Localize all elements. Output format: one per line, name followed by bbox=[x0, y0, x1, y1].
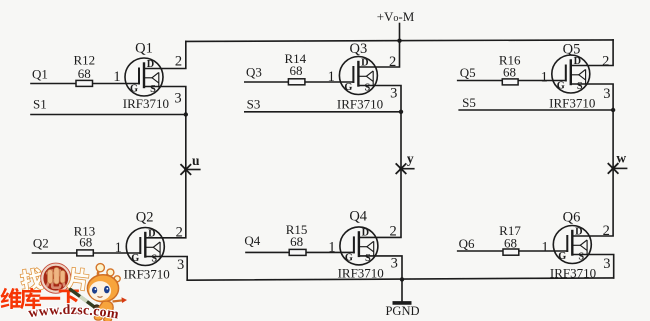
svg-text:G: G bbox=[130, 84, 138, 95]
svg-text:1: 1 bbox=[328, 239, 335, 255]
wire Q1 drain to rail bbox=[144, 41, 186, 68]
wire Q1 source down to node u bbox=[144, 87, 186, 170]
svg-text:2: 2 bbox=[603, 223, 610, 239]
svg-text:D: D bbox=[147, 59, 154, 70]
node +Vo-M lead bbox=[399, 24, 401, 41]
svg-text:68: 68 bbox=[290, 234, 303, 249]
resistor R13 bbox=[74, 224, 96, 256]
wire Q4 source to bottom rail bbox=[359, 256, 402, 280]
svg-text:Q4: Q4 bbox=[349, 208, 367, 224]
svg-text:Q6: Q6 bbox=[563, 209, 581, 225]
resistor R16 bbox=[499, 52, 521, 85]
transistor Q1 IRF3710 bbox=[125, 58, 163, 96]
svg-text:Q2: Q2 bbox=[136, 210, 154, 226]
watermark mascot bbox=[71, 264, 128, 321]
svg-text:1: 1 bbox=[113, 69, 120, 85]
svg-text:Q3: Q3 bbox=[246, 65, 262, 80]
svg-text:3: 3 bbox=[174, 90, 181, 106]
svg-text:2: 2 bbox=[389, 54, 396, 70]
svg-text:IRF3710: IRF3710 bbox=[338, 265, 384, 280]
junction dot top rail bbox=[397, 39, 401, 43]
svg-text:S: S bbox=[577, 81, 583, 92]
svg-text:S: S bbox=[150, 84, 156, 95]
watermark text 找 bbox=[20, 267, 45, 292]
transistor Q6 IRF3710 bbox=[553, 226, 591, 264]
svg-text:G: G bbox=[558, 251, 566, 262]
wire node u to Q2 drain bbox=[145, 170, 186, 238]
svg-text:u: u bbox=[192, 153, 200, 168]
svg-text:3: 3 bbox=[390, 85, 397, 101]
svg-text:2: 2 bbox=[175, 54, 182, 70]
wire node w to Q6 drain bbox=[572, 168, 613, 236]
wire input Q6 bbox=[458, 250, 568, 252]
svg-text:2: 2 bbox=[176, 225, 183, 241]
wire S1 line bbox=[31, 114, 186, 116]
svg-text:S3: S3 bbox=[247, 97, 261, 112]
svg-text:PGND: PGND bbox=[385, 304, 419, 318]
transistor Q3 IRF3710 bbox=[339, 57, 377, 95]
svg-text:y: y bbox=[407, 151, 414, 166]
svg-text:68: 68 bbox=[504, 235, 517, 250]
svg-text:68: 68 bbox=[290, 63, 303, 78]
svg-text:68: 68 bbox=[79, 235, 92, 250]
svg-text:IRF3710: IRF3710 bbox=[337, 96, 383, 111]
junction dot S1 bbox=[184, 112, 188, 116]
svg-text:68: 68 bbox=[78, 66, 91, 81]
node y bbox=[396, 151, 414, 174]
wire Q6 source to bottom rail bbox=[572, 255, 613, 278]
watermark magnifier with 芯 bbox=[41, 263, 71, 293]
svg-text:Q1: Q1 bbox=[135, 41, 153, 57]
wire node y to Q4 drain bbox=[359, 169, 401, 238]
wire S3 line bbox=[245, 111, 401, 113]
svg-text:S: S bbox=[365, 83, 371, 94]
transistor Q4 IRF3710 bbox=[340, 227, 378, 265]
watermark text 片 bbox=[67, 267, 90, 291]
svg-text:3: 3 bbox=[603, 86, 610, 102]
svg-text:Q4: Q4 bbox=[244, 233, 260, 248]
transistor Q2 IRF3710 bbox=[126, 228, 164, 266]
svg-text:1: 1 bbox=[115, 240, 122, 256]
svg-text:3: 3 bbox=[177, 257, 184, 273]
svg-text:D: D bbox=[148, 228, 155, 239]
svg-text:IRF3710: IRF3710 bbox=[123, 96, 169, 111]
resistor R17 bbox=[499, 223, 521, 255]
svg-text:IRF3710: IRF3710 bbox=[124, 266, 170, 281]
svg-text:G: G bbox=[344, 82, 352, 93]
wire Q3 drain to rail bbox=[358, 41, 399, 67]
svg-text:G: G bbox=[557, 81, 565, 92]
junction dot S3 bbox=[399, 110, 403, 114]
wire input Q1 bbox=[31, 83, 139, 85]
wire Q2 source to bottom rail bbox=[145, 257, 187, 281]
watermark text 维库一下 bbox=[0, 288, 78, 309]
node w bbox=[608, 151, 626, 174]
junction dot S5 bbox=[611, 108, 615, 112]
svg-text:Q2: Q2 bbox=[33, 236, 49, 251]
svg-text:2: 2 bbox=[602, 54, 609, 70]
svg-text:Q1: Q1 bbox=[32, 66, 48, 81]
svg-text:2: 2 bbox=[389, 223, 396, 239]
junction dot bottom rail bbox=[400, 277, 404, 281]
wire S5 line bbox=[459, 109, 613, 111]
wire input Q3 bbox=[245, 81, 354, 83]
wire Q5 drain to rail bbox=[571, 40, 613, 66]
svg-text:D: D bbox=[575, 226, 582, 237]
svg-text:Q5: Q5 bbox=[563, 41, 581, 57]
svg-text:w: w bbox=[616, 151, 626, 166]
svg-text:S: S bbox=[151, 254, 157, 265]
svg-text:S: S bbox=[578, 252, 584, 263]
svg-text:Q3: Q3 bbox=[350, 41, 368, 57]
svg-text:Q5: Q5 bbox=[460, 65, 476, 80]
svg-text:1: 1 bbox=[541, 69, 548, 85]
wire bottom rail PGND bbox=[187, 278, 614, 280]
wire Q5 source down to node w bbox=[571, 84, 613, 168]
transistor Q5 IRF3710 bbox=[552, 55, 590, 93]
svg-text:IRF3710: IRF3710 bbox=[549, 95, 595, 110]
wire top rail +Vo-M bbox=[186, 40, 613, 42]
svg-text:D: D bbox=[574, 56, 581, 67]
node u bbox=[181, 153, 200, 174]
wire input Q5 bbox=[458, 80, 566, 82]
wire input Q2 bbox=[33, 252, 141, 254]
wire Q3 source down to node y bbox=[358, 86, 401, 169]
wire input Q4 bbox=[246, 251, 354, 253]
watermark bbox=[0, 263, 127, 321]
ground PGND bbox=[385, 279, 419, 317]
svg-text:Q6: Q6 bbox=[459, 236, 475, 251]
svg-text:S1: S1 bbox=[33, 97, 47, 112]
svg-text:IRF3710: IRF3710 bbox=[550, 266, 596, 281]
svg-text:1: 1 bbox=[541, 240, 548, 256]
resistor R15 bbox=[286, 222, 308, 255]
svg-text:3: 3 bbox=[391, 255, 398, 271]
svg-text:S: S bbox=[365, 253, 371, 264]
svg-text:D: D bbox=[361, 57, 368, 68]
svg-text:S5: S5 bbox=[462, 95, 476, 110]
resistor R14 bbox=[284, 51, 306, 85]
svg-text:G: G bbox=[131, 253, 139, 264]
resistor R12 bbox=[73, 53, 95, 87]
svg-text:G: G bbox=[345, 253, 353, 264]
svg-text:D: D bbox=[362, 228, 369, 239]
svg-text:68: 68 bbox=[503, 65, 516, 80]
svg-text:3: 3 bbox=[603, 256, 610, 272]
svg-text:1: 1 bbox=[328, 69, 335, 85]
